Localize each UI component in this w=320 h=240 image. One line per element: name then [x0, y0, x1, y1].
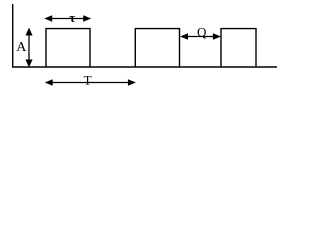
tau arrow (pulse width) — [44, 15, 91, 22]
A arrow (amplitude) — [25, 28, 32, 68]
svg-text:τ: τ — [69, 10, 75, 25]
y-axis — [12, 4, 14, 68]
svg-text:T: T — [84, 72, 92, 87]
baseline (time axis) — [12, 66, 277, 68]
T arrow (period) — [45, 79, 136, 86]
pulse 2 — [135, 29, 179, 67]
Q arrow (gap) — [180, 33, 221, 40]
pulse 3 — [221, 29, 256, 67]
svg-text:A: A — [16, 40, 27, 55]
pulse 1 — [46, 29, 90, 67]
svg-text:Q: Q — [197, 25, 207, 40]
